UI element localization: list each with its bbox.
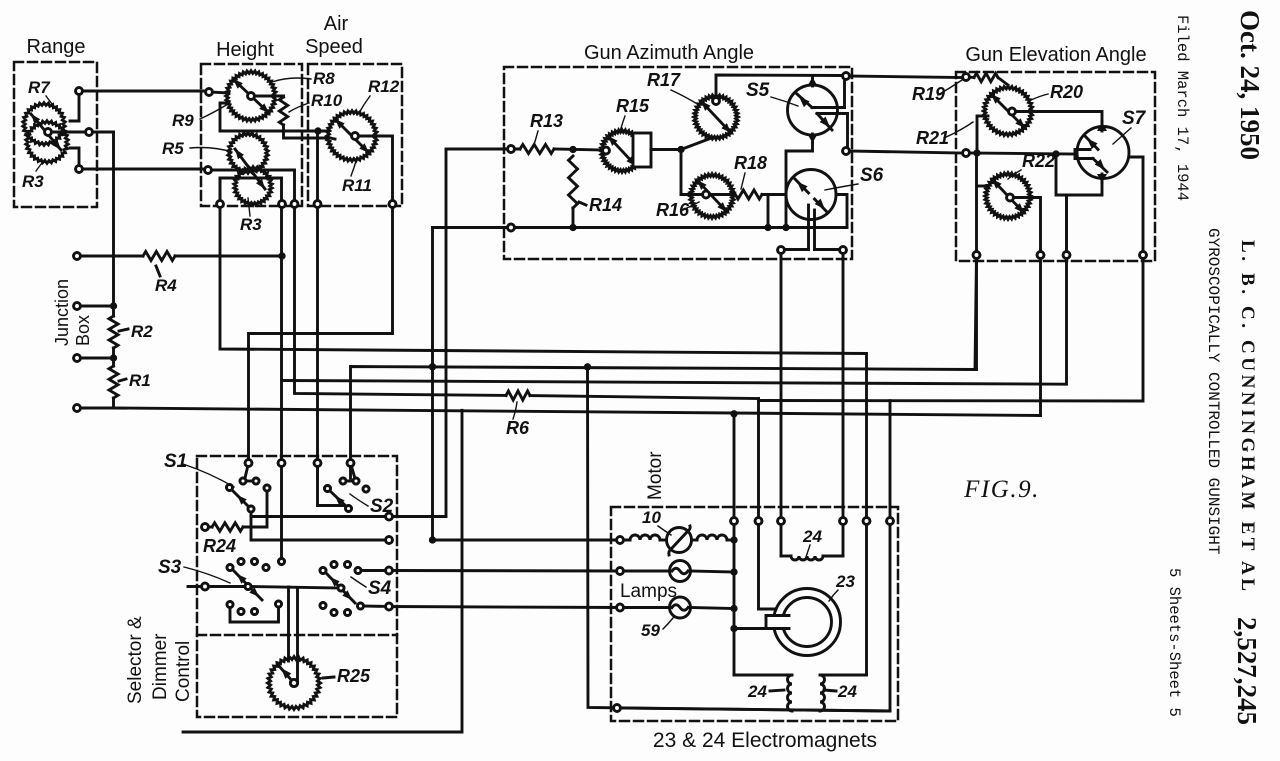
wire S5 cathode to rail xyxy=(782,143,812,231)
label S7 xyxy=(1113,108,1147,144)
svg-text:10: 10 xyxy=(642,508,661,527)
junction dot R14 tap xyxy=(569,146,576,153)
wire B selector feed 4 to elevation terminal 1 xyxy=(351,255,977,478)
svg-text:Selector &: Selector & xyxy=(125,616,146,704)
label 24 upper xyxy=(802,527,822,557)
potentiometer R7 xyxy=(23,103,65,146)
patent date Oct. 24, 1950 xyxy=(1235,10,1265,160)
Selector and Dimmer Control dashed box xyxy=(125,456,397,717)
label R7 xyxy=(28,78,56,109)
wire S4 contact to selector output 3 xyxy=(358,569,389,572)
wire electromagnet return vertical xyxy=(588,367,891,711)
label 59 xyxy=(641,618,673,640)
label R11 xyxy=(342,161,372,195)
label 24 lower-left xyxy=(747,682,784,701)
junction dot R4 to vertical xyxy=(278,252,285,259)
junction dot bottom bus to motor common xyxy=(730,410,737,417)
junction dots azimuth rail verticals xyxy=(429,363,436,543)
wire ring upper feed xyxy=(759,608,777,611)
label R17 xyxy=(647,70,699,105)
svg-text:R17: R17 xyxy=(647,70,681,90)
filed date xyxy=(1173,15,1191,201)
svg-text:Junction: Junction xyxy=(52,279,72,346)
label R3 (Range) xyxy=(22,159,45,191)
svg-text:24: 24 xyxy=(837,682,857,701)
svg-text:R16: R16 xyxy=(656,200,690,220)
wire selector ground branch xyxy=(183,410,462,732)
junction dot wire B to electromagnet return xyxy=(584,363,591,370)
svg-text:S5: S5 xyxy=(746,80,770,101)
wire lamp 1 line xyxy=(389,569,671,572)
terminal azimuth bottom 2 xyxy=(840,247,847,254)
svg-text:R13: R13 xyxy=(530,111,563,131)
electromagnet 24 upper coil xyxy=(781,521,843,560)
potentiometer R3 (Range) xyxy=(26,114,68,163)
svg-text:R18: R18 xyxy=(734,153,767,173)
svg-text:R4: R4 xyxy=(155,276,177,295)
Motor Lamps Electromagnets dashed box xyxy=(611,451,898,752)
terminal lamp 1 entry xyxy=(617,568,624,575)
terminal junction 4 xyxy=(74,405,81,412)
wire Range bottom output to Height xyxy=(70,148,206,169)
terminal Range top xyxy=(76,88,83,95)
label R20 xyxy=(1031,82,1083,102)
wire E junction terminal 4 long bottom bus to elevation xyxy=(77,408,1041,416)
terminal junction 1 xyxy=(74,253,81,260)
junction dot wire B to azimuth rail vertical xyxy=(429,363,436,370)
svg-text:GYROSCOPICALLY CONTROLLED GUNS: GYROSCOPICALLY CONTROLLED GUNSIGHT xyxy=(1204,228,1222,554)
terminal azimuth bottom 1 xyxy=(778,247,785,254)
svg-text:Dimmer: Dimmer xyxy=(150,633,171,700)
svg-text:24: 24 xyxy=(747,682,767,701)
terminal Range wiper xyxy=(86,129,93,136)
terminals elevation bottom edge xyxy=(973,252,1146,259)
svg-text:R22: R22 xyxy=(1022,151,1055,171)
svg-text:59: 59 xyxy=(641,621,660,640)
terminal selector output 1 xyxy=(386,513,393,520)
label R16 xyxy=(656,200,699,220)
terminal junction 2 xyxy=(74,303,81,310)
wire S3 pole to S4 pole with R25 taps xyxy=(248,587,340,589)
svg-text:S3: S3 xyxy=(158,557,182,578)
wire A height R3-left to elevation and electromagnet xyxy=(220,178,867,675)
terminal elevation input 2 xyxy=(963,150,970,157)
svg-text:R3: R3 xyxy=(22,172,44,191)
junction bus vertical wire xyxy=(112,132,115,408)
svg-text:R11: R11 xyxy=(342,176,372,195)
resistor R2 xyxy=(109,316,153,348)
label R13 xyxy=(530,111,563,145)
wire R17 wiper to S5 anode rail xyxy=(716,75,843,98)
thyratron S6 xyxy=(786,170,836,250)
wire junction terminal 2 xyxy=(77,302,117,309)
wire motor common vertical xyxy=(733,414,736,675)
svg-text:23: 23 xyxy=(835,572,855,591)
svg-text:R8: R8 xyxy=(313,69,335,88)
label S1 xyxy=(164,451,234,487)
terminal selector output 4 xyxy=(386,603,393,610)
label R3 (Height) xyxy=(240,198,262,234)
label R12 xyxy=(359,77,400,113)
svg-text:Oct. 24, 1950: Oct. 24, 1950 xyxy=(1235,10,1265,160)
terminal azimuth output 2 xyxy=(843,148,850,155)
terminal Range bottom xyxy=(76,166,83,173)
wire vertical R12-rail feed to selector terminal 3 xyxy=(316,131,319,478)
wire Height input to R8 xyxy=(209,92,229,93)
wire S7 return to elevation bottom terminal 3 xyxy=(1065,195,1068,255)
svg-text:Air: Air xyxy=(324,13,349,35)
Air Speed unit dashed box xyxy=(305,13,402,206)
wire electromagnet bottom bus xyxy=(617,708,890,711)
junction dot rail to S7 cathode return xyxy=(1052,150,1059,157)
resistor R14 xyxy=(569,156,623,231)
electromagnet 24 lower-left coil xyxy=(734,675,792,711)
svg-text:Lamps: Lamps xyxy=(620,581,677,602)
svg-text:R3: R3 xyxy=(240,215,262,234)
wire Height input 2 through R5 wiper xyxy=(208,169,295,172)
svg-text:Speed: Speed xyxy=(305,36,363,58)
wire motor supply line xyxy=(433,539,631,542)
label S2 xyxy=(350,494,394,517)
svg-text:R25: R25 xyxy=(337,666,371,686)
junction dot motor return xyxy=(730,536,737,543)
potentiometer R25 xyxy=(268,657,321,710)
wire R25 wiper lead to S4 side xyxy=(296,588,299,681)
svg-text:R6: R6 xyxy=(506,418,530,438)
svg-text:S1: S1 xyxy=(164,451,187,472)
wire R21 element to rail xyxy=(977,116,988,153)
resistor R4 xyxy=(143,252,177,296)
label R5 xyxy=(162,139,232,158)
terminal motor box bottom-left xyxy=(614,705,621,712)
wire R8 wiper to R10 xyxy=(255,96,330,138)
svg-text:R20: R20 xyxy=(1050,82,1083,102)
patent number 2,527,245 xyxy=(1232,617,1262,725)
terminal azimuth output 1 xyxy=(843,73,850,80)
svg-text:R9: R9 xyxy=(172,111,194,130)
wire Range wiper to junction bus xyxy=(52,131,114,134)
svg-text:5 Sheets-Sheet 5: 5 Sheets-Sheet 5 xyxy=(1165,568,1183,717)
resistor R10 xyxy=(279,97,287,125)
potentiometer R22 xyxy=(978,173,1031,220)
potentiometer R17 xyxy=(694,95,739,140)
Gun Azimuth Angle dashed box xyxy=(504,42,852,259)
terminal elevation input 1 xyxy=(963,74,970,81)
terminal Height input 1 xyxy=(206,89,213,96)
terminal lamp 2 entry xyxy=(617,604,624,611)
potentiometer R15 xyxy=(601,130,651,173)
sheet number xyxy=(1165,568,1183,717)
resistor R19 xyxy=(966,73,1008,85)
wire S4 pole to selector output 4 xyxy=(361,605,390,608)
wire junction terminal 1 with resistor R4 xyxy=(77,255,282,258)
svg-text:24: 24 xyxy=(802,527,822,546)
resistor R13 xyxy=(520,145,604,154)
junction dot R15 output xyxy=(677,146,684,153)
electromagnet 24 lower-right coil xyxy=(820,675,867,711)
potentiometer R16 xyxy=(690,174,735,219)
svg-text:Range: Range xyxy=(27,36,86,58)
wire elevation rail xyxy=(966,153,1075,154)
switch S4 xyxy=(320,562,364,616)
wire S7 plate to elevation bottom terminal 4 xyxy=(1129,157,1143,255)
label R15 xyxy=(616,96,650,132)
wire R13 feed from selector S2 xyxy=(389,149,520,517)
wire node down to R16 wiper xyxy=(681,150,697,195)
wire S6 output leads to azimuth bottom terminals xyxy=(781,250,843,522)
terminal Height input 2 xyxy=(205,167,212,174)
svg-text:R5: R5 xyxy=(162,139,184,158)
wire D R5-wire vertical with resistor R6 to motor box xyxy=(295,170,759,609)
Range unit dashed box xyxy=(14,36,97,207)
switch S2 xyxy=(318,463,370,512)
terminal azimuth rail input xyxy=(508,224,515,231)
wire R9 element rail to R12 xyxy=(220,103,327,131)
wire R18 node to azimuth rail xyxy=(764,195,771,232)
label S6 xyxy=(825,165,884,190)
wire S5 lower lead to azimuth output 2 xyxy=(848,114,963,154)
terminal selector output 3 xyxy=(386,567,393,574)
terminal selector output 2 xyxy=(386,537,393,544)
potentiometer R3 (Height) xyxy=(234,149,272,205)
switch S1 xyxy=(227,463,271,512)
terminals selector top edge xyxy=(245,460,354,467)
wire R12 lower rail xyxy=(330,138,335,139)
potentiometer R8/R9 xyxy=(226,71,277,122)
label 23 xyxy=(829,572,855,601)
svg-text:S4: S4 xyxy=(368,578,392,599)
wire S6 plate to rail right end xyxy=(836,195,847,228)
resistor R18 xyxy=(681,190,786,199)
svg-text:Control: Control xyxy=(173,641,194,702)
wire R20 wiper to S7 anode xyxy=(1016,112,1102,123)
motor 10 with chokes xyxy=(630,526,734,555)
label R18 xyxy=(734,153,767,189)
resistor R24 xyxy=(202,491,267,556)
svg-text:R24: R24 xyxy=(203,536,236,556)
thyratron S7 xyxy=(1075,122,1129,183)
svg-text:S6: S6 xyxy=(860,165,884,186)
svg-text:Filed March 17, 1944: Filed March 17, 1944 xyxy=(1173,15,1191,201)
label 10 xyxy=(642,508,671,535)
invention title xyxy=(1204,228,1222,554)
svg-text:Gun Elevation Angle: Gun Elevation Angle xyxy=(965,44,1146,66)
svg-text:L. B. C. CUNNINGHAM ET AL: L. B. C. CUNNINGHAM ET AL xyxy=(1237,240,1258,595)
svg-text:2,527,245: 2,527,245 xyxy=(1232,617,1262,725)
Junction Box label xyxy=(52,279,93,346)
junction dot lamp 2 return xyxy=(730,605,737,612)
svg-text:FIG.9.: FIG.9. xyxy=(963,476,1040,503)
inventor names xyxy=(1237,240,1258,595)
junction dot ring feed xyxy=(730,625,766,632)
wire rail vertical to elevation bottom terminal 1 xyxy=(975,153,978,370)
wire lamp 2 line xyxy=(389,607,671,608)
terminals Height and Air Speed bottom edge xyxy=(217,201,396,208)
label R8 xyxy=(272,69,335,88)
wire R22 wiper to elevation bottom terminal 2 xyxy=(1014,198,1041,416)
label R10 xyxy=(289,91,343,112)
wire R12 wiper to selector chain xyxy=(249,136,393,463)
svg-text:R7: R7 xyxy=(28,78,51,97)
wire C height bracket vertical / R4 node to elevation xyxy=(282,178,1067,561)
wire R3 bracket xyxy=(220,178,282,204)
label S5 xyxy=(746,80,798,106)
junction dot lamp 1 return xyxy=(730,568,737,575)
svg-text:S7: S7 xyxy=(1122,108,1147,129)
label R9 xyxy=(172,104,228,130)
potentiometer R5 xyxy=(228,133,268,174)
terminals motor box top edge xyxy=(731,518,894,525)
resistor R1 xyxy=(109,366,151,398)
lamp 1 xyxy=(670,561,735,582)
ring electromagnet 23 xyxy=(762,589,841,656)
label 24 lower-right xyxy=(824,682,857,701)
svg-text:R12: R12 xyxy=(368,77,400,96)
svg-text:R1: R1 xyxy=(129,371,151,390)
wire Range top output to Height xyxy=(70,91,205,121)
wire R15 to R17/R16 node xyxy=(651,137,714,150)
label S4 xyxy=(351,577,392,599)
wire junction terminal 3 xyxy=(77,354,117,361)
svg-text:Box: Box xyxy=(73,315,93,346)
svg-text:R2: R2 xyxy=(131,322,153,341)
svg-text:23 & 24 Electromagnets: 23 & 24 Electromagnets xyxy=(653,729,877,752)
Gun Elevation Angle dashed box xyxy=(956,44,1155,261)
label S3 xyxy=(158,557,230,583)
potentiometer R12/R11 xyxy=(327,111,378,162)
label R22 xyxy=(1008,151,1055,179)
wire S7 cathode return loop xyxy=(1056,154,1102,195)
junction dot rail to selector feed xyxy=(314,127,321,134)
label R25 xyxy=(323,666,371,686)
terminal junction 3 xyxy=(74,355,81,362)
svg-text:R15: R15 xyxy=(616,96,650,116)
label R21 xyxy=(916,122,973,148)
terminal azimuth R13 input xyxy=(508,146,515,153)
wire D branch to elevation terminal 4 xyxy=(759,255,1144,711)
junction dot rail to terminal vertical xyxy=(973,149,980,156)
wire S1 pole to selector outputs 1 and 2 xyxy=(251,511,389,540)
svg-text:Height: Height xyxy=(216,39,274,61)
thyratron S5 xyxy=(788,77,848,143)
resistor R6 xyxy=(506,391,530,438)
lamp 2 xyxy=(670,597,735,618)
Height unit dashed box xyxy=(201,39,302,206)
figure label FIG.9. xyxy=(963,476,1040,503)
label R19 xyxy=(912,80,962,104)
wire azimuth bottom rail xyxy=(433,228,848,541)
svg-text:Gun Azimuth Angle: Gun Azimuth Angle xyxy=(584,42,754,64)
terminal motor box left 1 xyxy=(617,537,624,544)
svg-text:Motor: Motor xyxy=(645,451,666,500)
switch S3 xyxy=(188,559,285,623)
svg-text:R10: R10 xyxy=(311,91,343,110)
svg-text:R14: R14 xyxy=(589,195,622,215)
potentiometer R20 xyxy=(983,86,1033,136)
wire S5 upper lead to azimuth output 1 xyxy=(845,76,964,108)
terminal circles and junction dots top layer xyxy=(45,73,1147,712)
wire R25 upper lead to S3 side xyxy=(287,587,290,661)
